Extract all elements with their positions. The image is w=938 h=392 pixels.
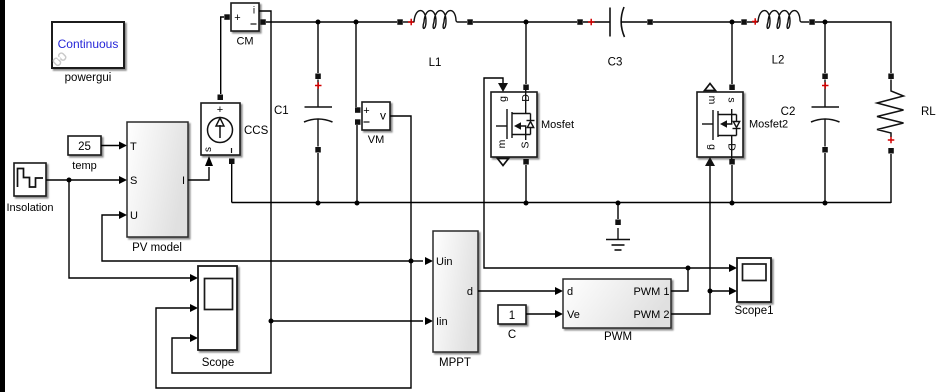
svg-text:m: m <box>496 139 508 148</box>
svg-text:U: U <box>130 210 138 222</box>
Mosfet block <box>491 90 574 157</box>
node C2 bottom rail <box>823 201 828 206</box>
svg-text:Mosfet2: Mosfet2 <box>749 119 788 131</box>
svg-text:C2: C2 <box>781 106 796 118</box>
powergui block <box>52 22 124 84</box>
node Mosfet source rail <box>524 201 529 206</box>
wire top rail CM to L1 <box>266 21 397 23</box>
svg-text:+: + <box>217 104 223 116</box>
wire top rail L2 to RL <box>815 22 891 73</box>
Scope block <box>198 266 237 369</box>
capacitor C1 <box>274 22 333 203</box>
PV model subsystem <box>127 122 188 254</box>
C constant block <box>498 305 526 341</box>
svg-text:S: S <box>520 141 532 148</box>
resistor RL <box>877 74 936 204</box>
svg-text:Mosfet: Mosfet <box>541 119 574 131</box>
svg-text:1: 1 <box>509 310 515 322</box>
left black margin bar <box>0 0 5 392</box>
svg-text:CM: CM <box>236 36 253 48</box>
capacitor C2 <box>781 22 840 203</box>
wire temp to PV model T input <box>101 142 127 150</box>
port CM left <box>224 14 230 19</box>
bottom rail <box>232 202 891 204</box>
svg-text:C3: C3 <box>608 57 623 69</box>
ground <box>606 203 630 250</box>
port CM right <box>260 19 266 25</box>
svg-text:d: d <box>567 286 573 298</box>
MPPT subsystem <box>433 231 478 369</box>
wire MPPT d output to PWM d input <box>478 287 563 295</box>
wire CM i output down to MPPT Iin <box>259 11 433 325</box>
svg-text:g: g <box>497 96 509 102</box>
wire Mosfet2 source to top rail <box>731 22 733 84</box>
svg-text:Continuous: Continuous <box>58 37 119 51</box>
svg-text:s: s <box>203 147 214 152</box>
svg-text:S: S <box>130 175 137 187</box>
wire VM v output loop to Scope input 2 <box>156 116 411 388</box>
wire Mosfet drain to top rail <box>525 22 527 84</box>
svg-text:Insolation: Insolation <box>6 202 53 214</box>
node PWM1 branch <box>686 266 691 271</box>
svg-text:g: g <box>706 144 718 150</box>
inductor L1 <box>397 11 473 69</box>
PWM subsystem <box>563 279 671 343</box>
node Mosfet2 drain rail <box>730 201 735 206</box>
svg-text:MPPT: MPPT <box>439 357 471 369</box>
port VM plus <box>355 107 361 113</box>
VM voltage measurement block <box>362 102 390 146</box>
node VM minus rail <box>355 201 360 206</box>
node C1 top <box>316 20 321 25</box>
capacitor C3 <box>577 7 653 69</box>
svg-text:PV model: PV model <box>132 242 182 254</box>
Mosfet2 block <box>697 92 788 159</box>
svg-text:Iin: Iin <box>436 316 448 328</box>
node Mosfet drain <box>524 20 529 25</box>
wire Insolation output to PV model S input <box>46 176 127 184</box>
port VM minus <box>355 119 361 125</box>
wire voltage signal to MPPT Uin <box>411 257 433 265</box>
node ground rail <box>616 201 621 206</box>
svg-text:d: d <box>467 286 473 298</box>
node Mosfet2 source <box>730 20 735 25</box>
port CCS top <box>218 95 224 101</box>
wire voltage feedback to PV model U input <box>102 211 411 261</box>
node C2 top <box>823 20 828 25</box>
svg-text:VM: VM <box>368 134 385 146</box>
svg-text:m: m <box>706 96 718 105</box>
Mosfet m output arrow <box>498 159 509 166</box>
node at Insolation output <box>67 178 72 183</box>
svg-text:Uin: Uin <box>436 256 453 268</box>
svg-text:+: + <box>234 12 240 24</box>
svg-text:v: v <box>380 109 386 123</box>
port CCS bottom-right <box>229 159 235 165</box>
svg-text:C: C <box>508 329 516 341</box>
Mosfet2 m output arrow <box>705 84 716 91</box>
svg-text:PWM: PWM <box>604 331 632 343</box>
wire Insolation branch to Scope input 1 <box>69 180 198 282</box>
wire PWM1 output to Mosfet gate and Scope1 <box>484 78 737 291</box>
svg-text:Scope: Scope <box>202 357 235 369</box>
svg-text:C1: C1 <box>274 105 289 117</box>
svg-text:CCS: CCS <box>244 125 269 137</box>
node VM signal to Uin junction <box>409 259 414 264</box>
svg-text:PWM 2: PWM 2 <box>633 309 669 321</box>
wire PV model I output to CCS signal input <box>188 156 213 180</box>
svg-text:powergui: powergui <box>65 72 112 84</box>
CCS controlled current source <box>201 103 269 155</box>
wire Mosfet source to bottom rail <box>523 159 529 165</box>
node C1 bottom rail <box>316 201 321 206</box>
svg-text:Ve: Ve <box>567 309 580 321</box>
svg-text:T: T <box>130 141 137 153</box>
wire C to PWM Ve input <box>526 310 563 318</box>
wire VM plus from rail <box>355 22 357 107</box>
node VM top <box>354 20 359 25</box>
svg-text:25: 25 <box>78 141 91 153</box>
svg-text:temp: temp <box>72 160 96 172</box>
wire VM minus to bottom rail <box>356 125 358 203</box>
svg-text:RL: RL <box>921 106 936 118</box>
svg-text:L1: L1 <box>429 57 442 69</box>
Scope1 block <box>734 258 773 317</box>
svg-text:+: + <box>363 105 369 117</box>
Insolation source block <box>6 163 53 214</box>
wire top rail L1 to C3 <box>473 21 577 23</box>
svg-text:i: i <box>253 6 255 17</box>
node PWM2 branch <box>708 289 713 294</box>
svg-text:s: s <box>726 97 738 102</box>
node CM i to Scope branch <box>269 319 274 324</box>
wire CM plus to CCS plus <box>221 17 224 94</box>
wire CCS minus to bottom rail <box>231 164 233 203</box>
temp constant block <box>68 136 101 172</box>
svg-text:PWM 1: PWM 1 <box>633 286 669 298</box>
wire Mosfet2 drain to bottom rail <box>729 159 735 165</box>
wire PWM2 output to Mosfet2 gate and Scope1 <box>671 157 737 314</box>
CM current measurement block <box>231 3 259 48</box>
svg-text:I: I <box>182 175 185 187</box>
svg-text:Scope1: Scope1 <box>734 305 773 317</box>
wire top rail C3 to L2 <box>653 21 741 23</box>
inductor L2 <box>741 11 815 67</box>
svg-text:L2: L2 <box>772 55 785 67</box>
wire CM i branch to Scope input 3 <box>172 321 271 373</box>
